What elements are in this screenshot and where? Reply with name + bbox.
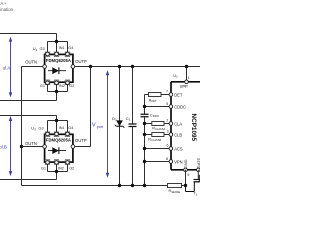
wire VPORT+ rail [73, 66, 200, 68]
svg-text:VPP: VPP [180, 84, 188, 89]
wire rail3 pair B+ [0, 115, 57, 117]
svg-text:OUTN: OUTN [25, 60, 37, 65]
svg-text:ol.A: ol.A [3, 65, 11, 70]
pin circle U2 G3 [46, 52, 50, 56]
diode D1 TVS [115, 120, 125, 127]
svg-text:IN1: IN1 [59, 46, 65, 50]
node D1 top [118, 65, 121, 68]
pin circle U2 OUTN [43, 65, 47, 69]
arrow Vport (blue) [106, 70, 109, 177]
wire U3 bottom gates bus [48, 164, 68, 179]
pin box U3 G3 [45, 132, 50, 137]
resistor RCLASSB [145, 134, 152, 136]
pin circle CDDC [169, 105, 173, 109]
pin circle VPN [169, 160, 173, 164]
svg-text:1: 1 [196, 192, 198, 196]
capacitor C1 [129, 124, 137, 127]
wire U3 top gates bus [48, 121, 68, 132]
node U2 bottom gate junction [55, 90, 58, 93]
pin box U2 G2 [65, 80, 70, 85]
svg-text:9: 9 [187, 173, 189, 177]
node riser taps VPORT+ [89, 65, 92, 68]
pin circle DET [169, 93, 173, 97]
pin circle U3 OUTP [71, 145, 75, 149]
svg-text:ol.B: ol.B [0, 144, 7, 149]
pin circle U2 IN1 [55, 52, 59, 56]
svg-text:3: 3 [34, 128, 36, 132]
pin box U2 G3 [45, 52, 50, 57]
diode U3 internal [48, 147, 66, 154]
svg-text:GND: GND [183, 159, 188, 168]
wire U2 OUTN to left drop [22, 67, 45, 186]
pin circle U3 G4 [66, 132, 70, 136]
svg-text:port: port [97, 125, 103, 129]
pin box U3 IN2 [54, 160, 59, 165]
svg-text:ACS: ACS [174, 146, 183, 151]
pin box U3 G2 [65, 160, 70, 165]
pin circle U2 IN2 [55, 81, 59, 85]
svg-text:VPN: VPN [174, 159, 182, 164]
transistor T1 [186, 175, 200, 192]
svg-text:6: 6 [167, 144, 169, 148]
svg-text:IN1: IN1 [59, 126, 65, 130]
svg-text:IN2: IN2 [59, 84, 65, 88]
svg-text:2: 2 [166, 119, 168, 123]
pin circle U2 G1 [46, 81, 50, 85]
wire U3 OUTN [22, 146, 45, 148]
svg-text:IN2: IN2 [58, 166, 64, 170]
node U3 OUTN joins drop [20, 145, 23, 148]
node GND rail junction [184, 184, 187, 187]
pin box U3 G4 [65, 132, 70, 137]
svg-text:A +: A + [0, 1, 7, 6]
node VPN junction [143, 160, 146, 163]
node VPP taps rail [185, 65, 188, 68]
diode U2 internal [48, 67, 66, 74]
wire U2 IN1 riser [56, 34, 58, 53]
pin box U3 G1 [45, 160, 50, 165]
node U2 gate junction [55, 40, 58, 43]
wire VPP drop [186, 67, 188, 81]
bridge U2 FDMQ8205A body [45, 54, 73, 82]
node U3 bottom gate junction [55, 170, 58, 173]
pin box U2 G1 [45, 80, 50, 85]
svg-text:FDMQ8205A: FDMQ8205A [46, 58, 72, 63]
svg-text:G1: G1 [41, 166, 46, 170]
wire ACS link [145, 148, 170, 150]
wire U3 OUTP riser [90, 67, 92, 147]
pin circle VPP [185, 80, 189, 84]
svg-text:CLASSA: CLASSA [155, 127, 166, 131]
svg-text:GATE: GATE [196, 157, 200, 168]
wire rail1 pair A+ [0, 33, 57, 35]
svg-text:G2: G2 [69, 166, 74, 170]
wire C1 branch lower [132, 127, 134, 186]
pin circle U3 G3 [46, 132, 50, 136]
pin circle CLA [169, 122, 173, 126]
wire CDDC pin link [145, 106, 170, 108]
svg-text:3: 3 [167, 130, 169, 134]
resistor RCLASSA [145, 123, 152, 125]
svg-text:OUTP: OUTP [75, 138, 87, 143]
pin box U2 IN2 [54, 80, 59, 85]
pin circle U3 G1 [46, 161, 50, 165]
node C1 bottom [131, 184, 134, 187]
svg-text:CLASSB: CLASSB [151, 138, 162, 142]
svg-text:CLA: CLA [174, 121, 182, 126]
node CDDC junction [143, 105, 146, 108]
wire rail2 pair A- [0, 100, 57, 102]
arrow pair A voltage (blue) [9, 37, 12, 98]
svg-text:DET: DET [151, 99, 157, 103]
svg-text:1: 1 [129, 118, 131, 122]
svg-text:OUTP: OUTP [75, 59, 87, 64]
pin circle ACS [169, 147, 173, 151]
svg-text:8: 8 [166, 157, 168, 161]
node C1 top [131, 65, 134, 68]
svg-text:2: 2 [36, 48, 38, 52]
pin circle U3 IN1 [55, 132, 59, 136]
svg-text:G1: G1 [40, 84, 45, 88]
arrow pair B voltage (blue) [9, 116, 12, 176]
wire D1 branch [119, 67, 121, 186]
svg-text:5: 5 [166, 102, 168, 106]
wire VPN node vertical upper [144, 95, 146, 115]
pin circle U3 G2 [66, 161, 70, 165]
svg-text:DDC: DDC [153, 114, 159, 118]
svg-text:V: V [92, 122, 96, 128]
node U3 gate junction [55, 119, 58, 122]
pin circle U3 OUTN [43, 145, 47, 149]
pin circle U2 G2 [66, 81, 70, 85]
svg-text:DET: DET [174, 92, 183, 97]
capacitor CDDC [141, 114, 149, 117]
svg-text:NCP1095: NCP1095 [190, 114, 197, 142]
svg-text:G3: G3 [40, 47, 45, 51]
node RCLASSB junction [143, 133, 146, 136]
svg-text:1: 1 [176, 75, 178, 79]
IC U1 NCP1095 body [171, 82, 200, 170]
pin circle U2 OUTP [71, 65, 75, 69]
svg-text:G4: G4 [68, 46, 73, 50]
svg-text:CLB: CLB [174, 132, 182, 137]
svg-text:G2: G2 [69, 84, 74, 88]
pin circle GATE bottom [197, 168, 201, 172]
pin circle U3 IN2 [55, 161, 59, 165]
wire U3 IN1 riser [56, 116, 58, 132]
wire U3 OUTP [73, 146, 91, 148]
node RCLASSA junction [143, 122, 146, 125]
wire GATE pin to T1 [197, 170, 199, 180]
pin circle U2 G4 [66, 52, 70, 56]
wire rail5 VPORT- right segment [182, 185, 186, 187]
pin box U2 G4 [65, 52, 70, 57]
pin circle CLB [169, 133, 173, 137]
wire rail4 pair B- [0, 179, 57, 181]
svg-text:7: 7 [166, 90, 168, 94]
node D1 bottom [118, 184, 121, 187]
svg-text:CDDC: CDDC [174, 104, 186, 109]
resistor RDET [145, 94, 149, 96]
pin box U3 IN1 [54, 132, 59, 137]
svg-text:SENSE: SENSE [171, 190, 180, 194]
node VPN line bottom [143, 184, 146, 187]
svg-text:G3: G3 [39, 127, 44, 131]
svg-text:OUTN: OUTN [25, 141, 37, 146]
bridge U3 FDMQ8205A body [45, 134, 73, 162]
svg-text:1: 1 [188, 76, 190, 80]
wire rail5 VPORT- [22, 185, 168, 187]
pin box U2 IN1 [54, 52, 59, 57]
svg-text:G4: G4 [68, 126, 73, 130]
resistor RSENSE body [168, 184, 182, 188]
wire VPN link [145, 161, 170, 163]
wire VPN node vertical lower [144, 117, 146, 185]
svg-text:FDMQ8205A: FDMQ8205A [46, 138, 72, 143]
wire C1 branch upper [132, 67, 134, 124]
wire U2 bottom gates bus [48, 85, 68, 101]
wire GND pin to rail [185, 170, 187, 186]
svg-text:ination: ination [0, 7, 13, 12]
pin circle GND bottom [184, 168, 188, 172]
wire U2 top gates bus [48, 42, 68, 53]
node ACS junction [143, 147, 146, 150]
